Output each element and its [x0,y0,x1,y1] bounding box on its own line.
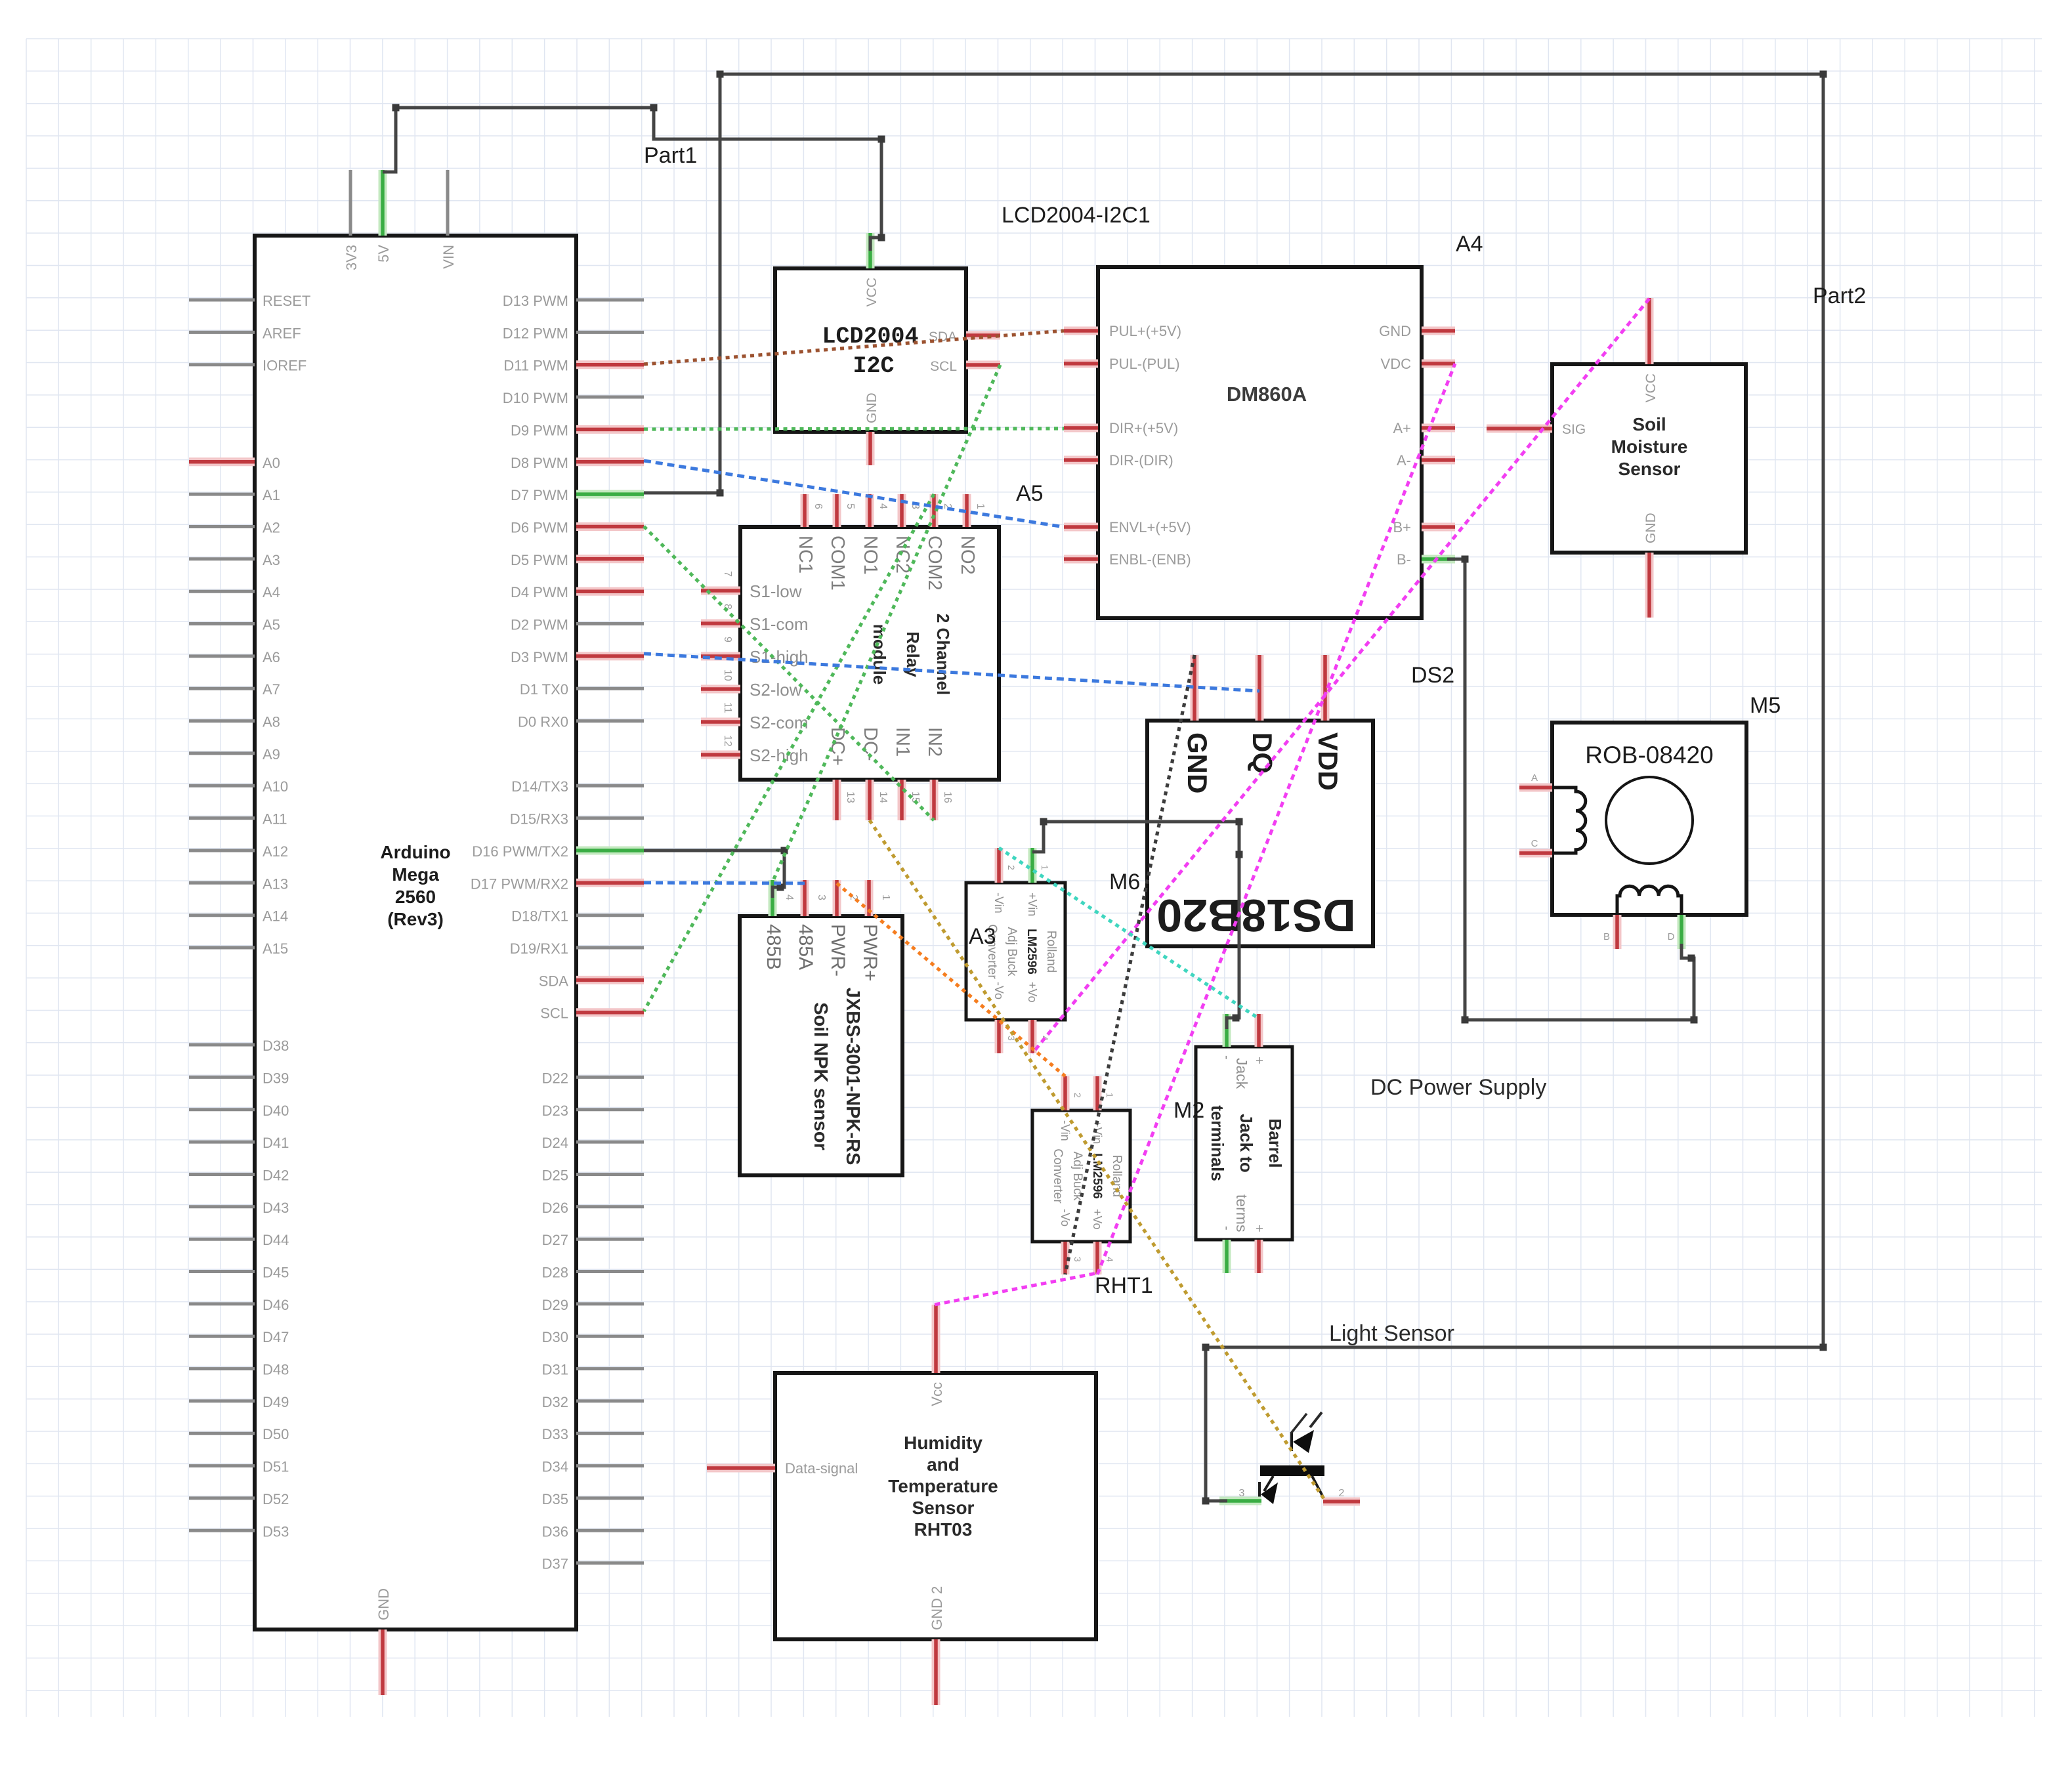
svg-text:and: and [927,1454,960,1475]
svg-text:1: 1 [1040,865,1050,870]
Relay top pin labels and numbers [795,503,986,591]
RHT03 pin GND 2 [932,1639,941,1705]
LCD pin VCC [866,233,875,268]
DM860A right pin labels [1379,323,1411,568]
svg-text:5: 5 [845,503,856,509]
DM860A right pins GND/VDC/A/B [1422,331,1455,559]
Arduino right pin labels [471,293,568,1572]
RHT03 Humidity and Temperature Sensor body [775,1373,1096,1639]
motor pin A [1519,784,1552,792]
svg-text:-Vin: -Vin [992,893,1005,914]
svg-text:3: 3 [1239,1488,1245,1499]
svg-text:Soil: Soil [1632,414,1666,434]
svg-text:Sensor: Sensor [912,1498,975,1518]
svg-text:A12: A12 [263,843,288,860]
Arduino bottom pin GND [379,1629,387,1695]
svg-text:Converter: Converter [1051,1148,1065,1204]
svg-text:+Vin: +Vin [1026,893,1039,916]
svg-text:Part2: Part2 [1813,284,1866,308]
Relay left pins S1/S2 [701,591,740,755]
svg-text:GND: GND [1379,323,1411,339]
svg-text:IN1: IN1 [892,727,913,757]
svg-text:B-: B- [1397,551,1411,568]
NPK pin 485B [769,880,777,916]
LM2596 converter M6 body [966,883,1065,1020]
svg-text:D32: D32 [542,1394,568,1410]
M6 pin +Vin [1028,848,1037,883]
ratsnest converter 2 +Vo to DM860A VDC (magenta) [1097,364,1455,1274]
svg-text:D30: D30 [542,1329,568,1345]
junction Part2 at D7 [717,490,724,497]
svg-text:A5: A5 [1016,481,1044,506]
svg-text:A: A [1531,772,1538,784]
DM860A left pins PUL/DIR/EN [1064,331,1098,559]
svg-text:D41: D41 [263,1135,289,1151]
svg-text:D3 PWM: D3 PWM [511,649,568,665]
svg-text:S2-high: S2-high [750,746,809,765]
svg-text:B: B [1603,931,1610,942]
svg-text:module: module [870,624,889,684]
svg-text:D33: D33 [542,1426,568,1442]
svg-text:RESET: RESET [263,293,310,309]
junction Part1 end hook [878,234,885,242]
svg-text:C: C [1531,838,1538,849]
svg-text:A+: A+ [1393,420,1411,436]
motor rotor circle [1606,777,1693,864]
svg-text:D15/RX3: D15/RX3 [510,811,568,828]
ratsnest M6 -Vin to barrel jack - (cyan) [999,848,1259,1019]
svg-text:RHT03: RHT03 [914,1519,973,1540]
LCD pin SCL [966,361,1000,369]
junction D16 wire end hook [777,884,784,891]
svg-text:2: 2 [1072,1093,1083,1098]
svg-text:Humidity: Humidity [904,1433,983,1453]
junction Part2 top-left corner [717,71,724,78]
junction Part2 bottom-right corner [1820,1344,1827,1351]
svg-text:D13 PWM: D13 PWM [503,293,568,309]
motor pin D [1678,915,1686,949]
svg-text:A14: A14 [263,908,288,925]
svg-text:+Vo: +Vo [1026,982,1039,1003]
Relay top pins NC1..NO2 [805,494,967,527]
svg-text:D27: D27 [542,1232,568,1248]
svg-text:A13: A13 [263,875,288,892]
ratsnest NPK PWR- to converter 2 -Vin (orange) [837,883,1065,1076]
svg-text:SCL: SCL [930,359,957,374]
svg-text:D31: D31 [542,1362,568,1378]
svg-text:3: 3 [1072,1257,1083,1262]
ratsnest LCD SCL to NPK 485B (green) [772,365,1000,882]
svg-text:D23: D23 [542,1103,568,1119]
svg-text:terminals: terminals [1208,1105,1227,1181]
svg-text:COM2: COM2 [924,536,945,591]
svg-text:D5 PWM: D5 PWM [511,552,568,568]
M6 pin -Vo [995,1020,1004,1053]
svg-text:D24: D24 [542,1135,568,1151]
svg-text:SDA: SDA [539,973,569,989]
svg-text:2 Channel: 2 Channel [933,614,953,695]
ratsnest D6 to relay IN2 (green) [644,526,934,820]
svg-text:A3: A3 [263,552,280,568]
svg-text:AREF: AREF [263,325,301,341]
svg-text:-Vo: -Vo [1059,1209,1072,1227]
ratsnest D8 to DM860A ENVL+ (blue) [644,461,1064,527]
light arrow 1 [1310,1412,1322,1427]
svg-text:ROB-08420: ROB-08420 [1585,742,1713,768]
svg-text:1: 1 [975,503,986,509]
svg-text:A11: A11 [263,811,287,828]
svg-text:D46: D46 [263,1297,289,1313]
motor pin C [1519,849,1552,858]
svg-text:7: 7 [722,571,733,577]
svg-text:+: + [1252,1225,1266,1232]
svg-text:D43: D43 [263,1200,289,1216]
phototransistor collector lead [1312,1476,1324,1498]
ratsnest D9 to DM860A DIR+ (green) [644,429,1064,429]
junction M6 wire corner left [1040,818,1047,826]
svg-text:D11 PWM: D11 PWM [503,358,568,374]
svg-text:Jack: Jack [1233,1058,1250,1089]
svg-text:A15: A15 [263,940,288,957]
Jack pin - terms (bottom green) [1223,1240,1231,1273]
svg-text:terms: terms [1233,1194,1250,1232]
Arduino top pin VIN [446,170,450,236]
phototransistor base bar [1260,1465,1324,1476]
M6 pin +Vo [1028,1020,1037,1053]
svg-text:GND: GND [864,392,879,423]
svg-text:DIR-(DIR): DIR-(DIR) [1109,452,1173,469]
svg-text:D: D [1668,931,1675,942]
svg-text:M6: M6 [1109,870,1140,894]
svg-text:D19/RX1: D19/RX1 [510,940,568,957]
DS18B20 pin DQ [1256,655,1264,721]
ratsnest D17 to NPK 485A (blue) [644,883,805,883]
junction Part1 corner 1 [650,104,658,112]
svg-text:LM2596: LM2596 [1025,929,1038,975]
svg-text:D42: D42 [263,1167,289,1184]
svg-text:Jack to: Jack to [1237,1114,1256,1173]
wire Part2: D7 to light sensor emitter [644,74,1823,1501]
svg-text:A9: A9 [263,746,280,763]
svg-text:COM1: COM1 [827,536,848,591]
DS18B20 pin VDD [1321,655,1330,721]
svg-text:3: 3 [816,894,827,900]
svg-text:+: + [1252,1057,1266,1064]
Soil sensor pin VCC [1645,298,1654,364]
svg-text:PWR-: PWR- [827,924,849,977]
svg-text:D47: D47 [263,1329,289,1345]
svg-text:D2 PWM: D2 PWM [511,617,568,633]
wire D16 to NPK 485B [644,851,784,898]
svg-text:A2: A2 [263,520,280,536]
LM2596 converter 2 body [1032,1110,1130,1242]
phototransistor pin 3 (emitter) [1219,1497,1261,1505]
svg-text:D51: D51 [263,1459,289,1475]
wire DM860A B- to motor D [1447,559,1694,1020]
Jack pin + terms (bottom red) [1255,1240,1263,1273]
Arduino Mega 2560 body [255,236,576,1629]
svg-text:A3: A3 [969,924,996,949]
svg-text:A7: A7 [263,681,280,698]
svg-text:1: 1 [880,894,891,900]
svg-text:3V3: 3V3 [343,245,360,270]
ratsnest relay DC- to phototransistor pin 2 (gold) [870,820,1324,1500]
svg-text:I2C: I2C [853,353,894,379]
svg-text:D45: D45 [263,1265,289,1281]
svg-text:PUL+(+5V): PUL+(+5V) [1109,323,1181,339]
ratsnest D3 to DS18B20 DQ (blue) [644,654,1259,691]
svg-text:GND: GND [1643,513,1659,543]
svg-text:D6 PWM: D6 PWM [511,520,568,536]
svg-text:16: 16 [942,791,953,803]
junction on M6 wire vertical [1236,851,1243,858]
svg-text:2560: 2560 [395,887,436,907]
junction M6 wire jack hook [1233,1015,1240,1022]
svg-text:D36: D36 [542,1523,568,1540]
svg-text:VCC: VCC [1643,373,1659,402]
junction B- wire corner top [1462,556,1469,563]
junction B- wire corner bottom-right [1691,1017,1698,1024]
svg-text:4: 4 [784,894,795,900]
Jack pin + Jack (top red) [1255,1014,1263,1047]
svg-text:A4: A4 [263,584,280,600]
svg-text:PWR+: PWR+ [859,924,881,982]
svg-text:1: 1 [1105,1093,1115,1098]
svg-text:SIG: SIG [1562,422,1586,437]
svg-text:A6: A6 [263,649,280,665]
svg-text:D39: D39 [263,1070,289,1086]
svg-text:Mega: Mega [392,864,439,885]
svg-text:D34: D34 [542,1459,568,1475]
Relay bottom pins DC/IN [837,780,934,820]
DS18B20 pin GND [1191,655,1199,721]
svg-text:485A: 485A [795,924,816,970]
svg-text:D44: D44 [263,1232,289,1248]
svg-text:DS2: DS2 [1411,663,1454,688]
Arduino left pin labels [263,293,310,1540]
svg-text:Vcc: Vcc [929,1382,945,1406]
svg-text:JXBS-3001-NPK-RS: JXBS-3001-NPK-RS [842,988,863,1166]
svg-text:D9 PWM: D9 PWM [511,422,568,438]
RHT03 pin Vcc [932,1305,941,1373]
junction Part1 riser corner [392,104,400,112]
NPK pin 485A [801,880,809,916]
svg-text:RHT1: RHT1 [1095,1273,1153,1298]
svg-text:LM2596: LM2596 [1090,1153,1104,1199]
converter 2 pin +Vo [1093,1242,1102,1274]
svg-text:Temperature: Temperature [888,1476,998,1496]
svg-text:12: 12 [722,735,733,747]
svg-text:DC Power Supply: DC Power Supply [1370,1075,1546,1100]
wire M6 +Vin to barrel jack + [1032,822,1239,1029]
svg-text:ENVL+(+5V): ENVL+(+5V) [1109,519,1191,536]
svg-text:DIR+(+5V): DIR+(+5V) [1109,420,1178,436]
svg-text:4: 4 [877,503,889,509]
svg-text:D28: D28 [542,1265,568,1281]
svg-text:Light Sensor: Light Sensor [1329,1321,1454,1346]
Relay bottom pin labels and numbers [827,727,953,803]
Arduino right pins D13..D37 [576,300,644,1563]
JXBS-3001 Soil NPK sensor body [740,916,902,1175]
LCD pin SDA [966,331,1000,340]
svg-text:D8 PWM: D8 PWM [511,455,568,471]
svg-text:M2: M2 [1173,1098,1204,1123]
svg-text:S2-low: S2-low [750,680,802,700]
junction B- wire corner bottom-left [1462,1017,1469,1024]
svg-text:11: 11 [722,702,733,713]
svg-text:D1 TX0: D1 TX0 [520,681,568,698]
svg-text:NC1: NC1 [795,536,816,574]
svg-text:-: - [1219,1055,1234,1060]
svg-text:S2-com: S2-com [750,713,809,732]
NPK pin PWR- [833,880,841,916]
svg-text:D26: D26 [542,1200,568,1216]
Arduino top pin 3V3 [349,170,352,236]
junction Part2 light-sensor corner [1202,1498,1210,1505]
svg-text:D50: D50 [263,1426,289,1442]
motor left coil winding [1552,788,1586,853]
LCD pin GND [866,432,875,465]
svg-text:D29: D29 [542,1297,568,1313]
svg-text:6: 6 [813,503,824,509]
svg-text:A0: A0 [263,455,280,471]
svg-text:Adj Buck: Adj Buck [1005,927,1019,977]
Barrel Jack to terminals body [1196,1047,1292,1240]
ratsnest D11 to LCD SDA / DM860A PUL+ (brown) [644,331,1064,364]
wire Part1: 5V to LCD VCC [383,108,881,251]
junction D16 wire corner [781,847,788,854]
ratsnest soil VCC to M6 +Vo (magenta) [1032,299,1649,1053]
svg-text:D7 PWM: D7 PWM [511,487,568,503]
svg-text:485B: 485B [763,924,784,970]
Soil Moisture Sensor body [1552,364,1746,553]
svg-text:D38: D38 [263,1038,289,1054]
svg-text:LCD2004-I2C1: LCD2004-I2C1 [1002,203,1151,228]
svg-text:14: 14 [877,791,889,803]
svg-text:Data-signal: Data-signal [785,1460,858,1477]
svg-text:M5: M5 [1750,693,1781,718]
svg-text:DS18B20: DS18B20 [1156,890,1356,941]
svg-text:A8: A8 [263,714,280,730]
svg-text:D22: D22 [542,1070,568,1086]
svg-text:A1: A1 [263,487,280,503]
Relay left pin labels and numbers [722,571,809,765]
svg-text:LCD2004: LCD2004 [822,324,918,350]
svg-text:GND: GND [375,1588,392,1620]
svg-text:VDC: VDC [1381,356,1412,372]
svg-text:IOREF: IOREF [263,358,307,374]
svg-text:(Rev3): (Rev3) [387,909,444,929]
svg-text:-: - [1219,1226,1234,1230]
ratsnest relay COM2 to Arduino SCL (green) [644,494,934,1011]
RHT03 pin Data-signal [707,1464,775,1473]
NPK pin PWR+ [865,880,874,916]
svg-text:VIN: VIN [440,245,457,269]
junction Part2 top-right corner [1820,71,1827,78]
DM860A left pin labels [1109,323,1191,568]
svg-text:D48: D48 [263,1362,289,1378]
motor bottom coil winding [1617,886,1681,915]
svg-text:SCL: SCL [540,1005,568,1022]
svg-text:Arduino: Arduino [380,842,450,862]
ratsnest RHT03 Vcc to converter 2 +Vo (magenta) [935,1273,1097,1305]
svg-text:ENBL-(ENB): ENBL-(ENB) [1109,551,1191,568]
LCD2004 I2C body [775,268,966,432]
svg-text:2: 2 [1339,1488,1345,1499]
svg-text:GND 2: GND 2 [929,1586,945,1630]
DM860A driver body [1098,267,1422,618]
svg-text:D14/TX3: D14/TX3 [511,778,568,795]
svg-text:D40: D40 [263,1103,289,1119]
DS18B20 body [1147,721,1373,946]
junction B- wire motor hook [1688,955,1695,962]
M6 pin -Vin [995,848,1004,883]
svg-text:D53: D53 [263,1523,289,1540]
svg-text:Moisture: Moisture [1611,436,1688,457]
svg-text:Barrel: Barrel [1265,1118,1285,1167]
svg-text:Sensor: Sensor [1618,459,1681,479]
Arduino left pins RESET..D53 [189,300,255,1530]
svg-text:Soil NPK sensor: Soil NPK sensor [810,1002,831,1150]
svg-text:Rolland: Rolland [1044,931,1058,973]
svg-text:-Vo: -Vo [992,982,1005,999]
svg-text:D35: D35 [542,1491,568,1507]
svg-text:VDD: VDD [1313,732,1343,791]
ratsnest DS18B20 GND to converter 2 -Vo (black) [1065,655,1195,1274]
svg-text:D18/TX1: D18/TX1 [511,908,568,925]
svg-text:D10 PWM: D10 PWM [503,390,568,406]
junction Part2 bottom-left corner [1202,1344,1210,1351]
svg-text:D0 RX0: D0 RX0 [518,714,568,730]
svg-text:S1-low: S1-low [750,581,802,601]
svg-text:IN2: IN2 [924,727,945,757]
svg-text:A-: A- [1397,452,1411,469]
svg-text:PUL-(PUL): PUL-(PUL) [1109,356,1180,372]
svg-text:D12 PWM: D12 PWM [503,325,568,341]
svg-text:VCC: VCC [864,278,879,306]
svg-text:13: 13 [845,791,856,803]
svg-text:5V: 5V [375,245,392,263]
svg-text:NO1: NO1 [860,536,881,575]
svg-text:D37: D37 [542,1556,568,1572]
Soil sensor pin GND [1645,553,1654,618]
junction Part1 corner 2 [878,136,885,143]
converter 2 pin -Vo [1061,1242,1070,1274]
svg-text:9: 9 [722,637,733,642]
svg-text:GND: GND [1182,732,1213,793]
converter 2 pin -Vin [1061,1076,1070,1110]
svg-text:D49: D49 [263,1394,289,1410]
svg-text:D52: D52 [263,1491,289,1507]
converter 2 pin +Vin [1093,1076,1102,1110]
svg-text:A4: A4 [1456,232,1483,257]
Jack pin - Jack (top green) [1223,1014,1231,1047]
svg-text:-Vin: -Vin [1059,1120,1072,1141]
phototransistor pin 2 (collector) [1323,1498,1360,1506]
svg-text:NO2: NO2 [957,536,978,575]
svg-text:D17 PWM/RX2: D17 PWM/RX2 [471,875,568,892]
svg-text:D4 PWM: D4 PWM [511,584,568,600]
svg-text:DM860A: DM860A [1227,383,1307,406]
ROB-08420 motor body [1552,723,1746,915]
Soil sensor pin SIG [1487,425,1552,433]
svg-text:10: 10 [722,669,733,681]
svg-text:+Vo: +Vo [1091,1209,1104,1230]
svg-text:DQ: DQ [1247,732,1278,774]
svg-text:Part1: Part1 [644,143,697,168]
junction M6 wire corner right [1236,818,1243,826]
svg-text:4: 4 [1105,1257,1115,1262]
